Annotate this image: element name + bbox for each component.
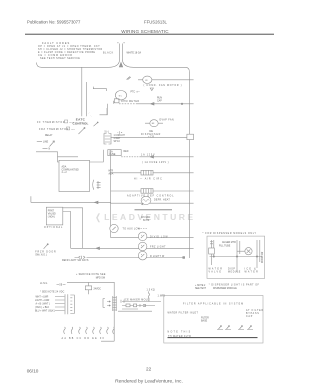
svg-text:CAP: CAP	[157, 99, 162, 102]
svg-text:BLU + WHT ( BLK ): BLU + WHT ( BLK )	[35, 310, 55, 312]
svg-text:LIGHT + LWR: LIGHT + LWR	[35, 300, 50, 302]
svg-text:+ NOTE 2: + NOTE 2	[195, 285, 206, 287]
freezer door switch	[44, 245, 48, 249]
condenser fan motor	[143, 76, 152, 83]
feed terminal marks	[57, 283, 66, 286]
svg-text:DISPENSER MODULE: DISPENSER MODULE	[213, 288, 237, 290]
defrost thermostat box	[141, 170, 153, 175]
svg-text:1 A: 1 A	[109, 150, 113, 153]
freezer light row wire	[71, 247, 190, 249]
svg-text:FILTER APPLICABLE IN SYSTEM: FILTER APPLICABLE IN SYSTEM	[183, 303, 244, 306]
left bus wire	[110, 150, 112, 238]
freezer light arrow	[96, 247, 100, 250]
header publication number	[27, 19, 81, 24]
aux dashed wire	[138, 228, 148, 230]
PTC starter wire	[93, 87, 106, 91]
svg-text:VALVE: VALVE	[209, 271, 223, 274]
dispenser motor	[245, 248, 252, 255]
svg-text:FILL TUBE: FILL TUBE	[219, 246, 231, 248]
svg-text:ADAPTIVE DEF CONTROL: ADAPTIVE DEF CONTROL	[127, 194, 174, 197]
power cord wires	[101, 47, 141, 67]
svg-text:WHT + LWR: WHT + LWR	[36, 296, 49, 298]
svg-text:R LIGHT W: R LIGHT W	[150, 256, 165, 258]
power cord strain relief arrow	[119, 63, 122, 68]
svg-text:N: N	[49, 149, 51, 151]
svg-text:REFR LIGHT SW DAYS: REFR LIGHT SW DAYS	[62, 259, 89, 262]
main harness vertical wire	[101, 282, 114, 341]
svg-text:OP = OPEN AT J1 = OPEN THERM.: OP = OPEN AT J1 = OPEN THERM. CKT	[38, 45, 100, 48]
svg-text:WATER: WATER	[245, 271, 260, 274]
adaptive defrost box	[141, 189, 153, 194]
left harness wires	[55, 297, 65, 311]
svg-text:WHITE 18 GA: WHITE 18 GA	[127, 52, 142, 55]
svg-text:E = FLASH CODE = DEFECTIVE PRO: E = FLASH CODE = DEFECTIVE PROBE	[38, 51, 95, 54]
dispenser main wire	[210, 256, 263, 258]
svg-text:WATER FILTER INLET: WATER FILTER INLET	[168, 312, 199, 315]
optional box wire A	[63, 208, 83, 249]
svg-text:SH = CLOSED J2 = SHORTED THERM: SH = CLOSED J2 = SHORTED THERMISTOR	[38, 49, 103, 51]
dispenser motor cross	[247, 249, 251, 253]
svg-text:COMPLIANT BD: COMPLIANT BD	[62, 168, 80, 171]
icemaker wire components	[126, 304, 130, 307]
stepped neutral wire A	[36, 150, 103, 162]
svg-text:DISPENSER: DISPENSER	[141, 134, 161, 136]
svg-text:LINE: LINE	[43, 142, 49, 144]
dispenser lamp row wire	[111, 237, 190, 239]
dispenser left pair wires	[212, 240, 214, 265]
board connector arc	[93, 180, 94, 190]
svg-text:DISP: DISP	[228, 269, 235, 271]
mid harness arrows	[107, 301, 110, 307]
switch arrow	[50, 141, 55, 147]
svg-text:TO AUX LOW: TO AUX LOW	[123, 228, 141, 231]
svg-text:24VDC: 24VDC	[94, 288, 102, 290]
frz thermistor connector	[67, 127, 70, 130]
svg-text:VAL BD: VAL BD	[48, 213, 56, 216]
svg-text:OPTIONAL: OPTIONAL	[44, 226, 63, 229]
board connector pins	[97, 181, 101, 189]
left control board box	[59, 160, 90, 191]
control feed wire A	[81, 68, 83, 117]
svg-text:A + B ( WHT ): A + B ( WHT )	[36, 302, 50, 305]
compressor motor	[115, 91, 126, 100]
filter switch A	[217, 326, 231, 330]
svg-text:FRNT: FRNT	[48, 211, 55, 213]
svg-text:+ C B: + C B	[148, 137, 154, 139]
svg-text:1A 125V: 1A 125V	[141, 153, 155, 156]
refrigerator light lamp	[138, 251, 147, 260]
left harness receptacle	[70, 295, 74, 314]
defrost heater	[141, 196, 151, 204]
svg-text:WIRING SCHEMATIC: WIRING SCHEMATIC	[121, 29, 169, 34]
dispenser lamp	[138, 232, 147, 241]
fuse dashed wire	[121, 156, 140, 158]
svg-text:FRZ LIGHT: FRZ LIGHT	[150, 247, 166, 249]
relay contact dot	[84, 127, 85, 128]
svg-text:L1 N G: L1 N G	[40, 283, 47, 285]
dispenser junction dots	[213, 256, 214, 257]
filter switch B	[238, 326, 253, 330]
icemaker wire row 1	[122, 301, 161, 303]
evap fan motor	[150, 120, 158, 127]
svg-text:FF THERMISTOR: FF THERMISTOR	[37, 122, 65, 124]
svg-text:PTC ◁—: PTC ◁—	[131, 90, 141, 93]
dispenser center wire	[210, 240, 240, 272]
dispenser motor wire	[237, 250, 245, 252]
svg-text:CONTROL: CONTROL	[73, 122, 89, 126]
svg-text:MODULE: MODULE	[228, 272, 241, 274]
wire mark	[127, 77, 131, 80]
junction dot	[181, 103, 183, 105]
svg-text:FUSE: FUSE	[109, 154, 116, 156]
svg-text:06/10: 06/10	[27, 368, 39, 373]
svg-text:22: 22	[146, 366, 152, 371]
ice maker row wire	[111, 136, 190, 138]
icemaker mold heater	[148, 292, 150, 302]
adaptive box hatches	[144, 189, 152, 194]
svg-text:Publication No: 5995573077: Publication No: 5995573077	[27, 19, 81, 24]
fuse arrow	[150, 156, 154, 159]
svg-text:OHM METER: OHM METER	[121, 101, 140, 103]
svg-text:BLACK: BLACK	[103, 52, 114, 55]
mid connector ticks	[112, 296, 116, 311]
svg-text:FAULT CODES: FAULT CODES	[42, 41, 70, 45]
dispenser right wires	[257, 240, 260, 268]
svg-text:EVAP FAN: EVAP FAN	[160, 119, 175, 122]
cancel ice row wire	[36, 201, 189, 204]
svg-text:SEE TECH SHEET SERVICE: SEE TECH SHEET SERVICE	[40, 58, 80, 60]
svg-text:ICE MAKER MOLD: ICE MAKER MOLD	[124, 299, 150, 302]
mid harness bracket	[103, 299, 105, 308]
corner wire to control	[100, 104, 108, 115]
svg-text:* SEE NOTE 24 VDC: * SEE NOTE 24 VDC	[40, 292, 65, 294]
condenser fan wire	[138, 79, 189, 81]
door switch dot	[47, 244, 48, 245]
svg-text:.∙: .∙	[88, 113, 90, 115]
defrost heater element	[143, 199, 150, 201]
svg-text:DEFR. HEAT: DEFR. HEAT	[154, 199, 170, 202]
svg-text:BYPASS: BYPASS	[246, 312, 260, 315]
svg-text:WATER: WATER	[209, 268, 224, 271]
icemaker feed wire	[67, 282, 114, 294]
row end terminal	[183, 257, 185, 259]
svg-text:( 1A FUSE 125V ): ( 1A FUSE 125V )	[142, 161, 169, 164]
icemaker wire row 2	[122, 305, 155, 307]
svg-text:1 CIRCUIT: 1 CIRCUIT	[114, 135, 126, 137]
svg-text:AA BB CC DD EE FF: AA BB CC DD EE FF	[62, 337, 106, 340]
water tube squiggles	[64, 327, 115, 334]
right bus wire	[188, 71, 190, 258]
aux circle	[110, 224, 118, 232]
svg-text:FRZ THERMISTOR: FRZ THERMISTOR	[39, 129, 69, 131]
svg-text:RELAY: RELAY	[45, 134, 53, 137]
svg-text:60 HZ: 60 HZ	[143, 220, 150, 222]
svg-text:1.5 KQ: 1.5 KQ	[147, 289, 155, 291]
relay switch	[79, 123, 98, 134]
svg-text:CE = COMM ERROR: CE = COMM ERROR	[38, 55, 73, 57]
svg-text:BASE: BASE	[201, 319, 208, 322]
compressor return wire	[137, 103, 189, 105]
top bus wire left segment	[37, 63, 102, 68]
freezer light lamp	[138, 242, 147, 251]
defrost box hatches	[144, 170, 152, 175]
svg-text:* FOR DISPENSER MODELS ONLY: * FOR DISPENSER MODELS ONLY	[203, 233, 257, 235]
svg-text:ICE &: ICE &	[245, 269, 258, 271]
svg-text:S C: S C	[119, 95, 123, 97]
fault codes legend	[38, 41, 103, 60]
svg-text:– 5 =: – 5 =	[117, 133, 123, 135]
svg-text:CAP: CAP	[246, 315, 253, 318]
highlight bar	[135, 209, 173, 211]
icemaker wire row 3	[118, 309, 152, 311]
optional box wire B	[63, 212, 71, 249]
svg-text:–▫–¬: –▫–¬	[69, 122, 74, 124]
svg-text:ADA: ADA	[62, 166, 67, 169]
svg-text:AUGER MTR: AUGER MTR	[222, 241, 236, 244]
ff thermistor connector	[65, 120, 68, 123]
svg-text:FILTER: FILTER	[201, 317, 209, 319]
compressor overload protector	[113, 99, 119, 104]
bus junction ticks	[189, 80, 193, 249]
heater arrow mark	[142, 203, 144, 205]
svg-text:4 + 2: 4 + 2	[62, 172, 68, 174]
svg-text:SEE TEXT: SEE TEXT	[195, 288, 207, 290]
svg-text:* DISPENSER LIGHT IS PART OF: * DISPENSER LIGHT IS PART OF	[209, 283, 260, 286]
svg-text:( BLK ) + BLK: ( BLK ) + BLK	[35, 307, 50, 309]
refrigerator light row wire	[75, 257, 184, 259]
condenser fan ground	[150, 88, 153, 91]
filter highlight bar	[168, 337, 258, 339]
splice marks	[79, 256, 86, 259]
header model number	[144, 19, 168, 24]
svg-text:MFD SW: MFD SW	[96, 277, 106, 279]
svg-text:115 VAC: 115 VAC	[141, 216, 150, 219]
svg-text:AT FILTER: AT FILTER	[246, 309, 264, 312]
defrost circuit row wire	[111, 172, 190, 174]
svg-text:FFUS2613L: FFUS2613L	[144, 19, 168, 24]
svg-text:+ SERVICE NOTE SEE: + SERVICE NOTE SEE	[76, 274, 106, 276]
left harness connector bars	[65, 294, 68, 314]
svg-text:TH WATER FLTR: TH WATER FLTR	[168, 335, 191, 338]
optional control box	[46, 207, 63, 225]
fuse wire to bus	[140, 156, 189, 158]
icemaker feed box	[85, 286, 91, 290]
svg-text:DOOR SW: DOOR SW	[262, 251, 264, 263]
cancel ice left riser	[31, 196, 36, 202]
svg-text:4 WAY: 4 WAY	[114, 137, 121, 140]
svg-text:FRZR DOOR: FRZR DOOR	[35, 251, 56, 253]
line label tick	[37, 140, 42, 142]
svg-text:HTR: HTR	[109, 171, 114, 173]
dispenser left component	[209, 248, 215, 254]
power cord plug prongs	[117, 43, 125, 47]
svg-text:RED: RED	[124, 151, 129, 153]
svg-text:∙.: ∙.	[91, 116, 93, 118]
evap fan corner wire	[106, 108, 108, 115]
wire splice arrow	[151, 103, 155, 106]
svg-text:SW ( N.O. ): SW ( N.O. )	[35, 254, 47, 256]
svg-text:ADA: ADA	[109, 172, 114, 175]
svg-text:RUN: RUN	[157, 98, 162, 100]
svg-text:5 (-): 5 (-)	[105, 132, 109, 134]
fuse holder box	[108, 150, 121, 156]
evap fan wires	[145, 122, 163, 124]
filter info box	[164, 296, 263, 344]
adaptive defrost row wire	[111, 190, 190, 192]
control feed wire B	[86, 82, 88, 116]
stepped neutral wire B	[58, 156, 79, 158]
svg-text:–▫¬: –▫¬	[71, 129, 75, 131]
svg-text:ICE: ICE	[149, 131, 153, 133]
svg-text:DIVID LOW: DIVID LOW	[150, 237, 168, 239]
svg-text:( ADA ): ( ADA )	[48, 216, 56, 219]
neutral label tick	[43, 147, 48, 149]
svg-text:SP 10: SP 10	[114, 141, 121, 143]
svg-text:1. MFD: 1. MFD	[158, 296, 166, 298]
four way connector bracket	[104, 134, 111, 145]
svg-text:Rendered by LeadVenture, Inc.: Rendered by LeadVenture, Inc.	[115, 378, 183, 384]
cancel ice arrow	[95, 201, 99, 204]
top bus wire right segment	[141, 67, 189, 71]
schematic tiny labels	[35, 52, 264, 341]
ice maker row connector box	[187, 134, 194, 139]
svg-text:NOTE THIS: NOTE THIS	[168, 332, 192, 334]
svg-text:HI — AIR CIRC: HI — AIR CIRC	[134, 178, 163, 181]
svg-text:( COND. FAN MOTOR ): ( COND. FAN MOTOR )	[144, 84, 183, 87]
compressor run capacitor dashed wire	[119, 103, 137, 105]
dispenser option box	[207, 236, 265, 278]
